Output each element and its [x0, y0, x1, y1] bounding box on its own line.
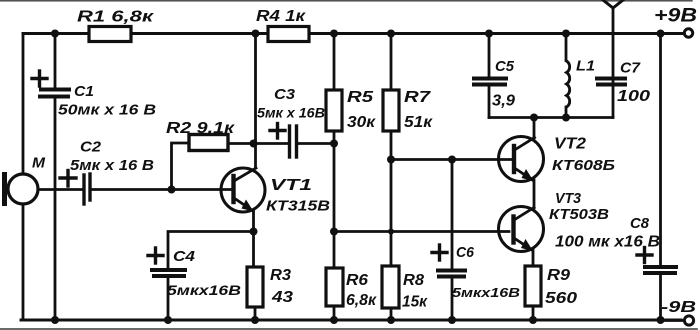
svg-text:100 мк x16 В: 100 мк x16 В	[555, 234, 660, 251]
wire VT3 emitter	[532, 250, 535, 266]
svg-text:C8: C8	[630, 215, 650, 232]
svg-text:5мк x 16В: 5мк x 16В	[257, 105, 325, 121]
terminal +9V	[684, 29, 692, 37]
transistor VT1	[221, 168, 265, 212]
svg-text:560: 560	[545, 290, 577, 307]
wire VT1 emitter	[252, 210, 255, 267]
resistor R3	[247, 267, 263, 307]
wire C5 branch	[488, 34, 491, 78]
wire VT2 base	[391, 158, 512, 161]
svg-text:R6: R6	[346, 272, 368, 289]
svg-text:C2: C2	[80, 139, 102, 156]
svg-text:R7: R7	[404, 89, 431, 106]
wire top rail	[23, 32, 684, 35]
wire R7 branch top	[390, 34, 393, 91]
wire R6 bottom	[333, 306, 336, 320]
C2 plus sign	[60, 176, 76, 179]
svg-text:R3: R3	[270, 267, 291, 284]
wire VT2 collector	[533, 118, 536, 139]
wire R8 bottom	[390, 308, 393, 320]
wire bottom rail	[21, 319, 681, 322]
wire left rail lower	[22, 204, 25, 320]
svg-text:L1: L1	[576, 58, 595, 75]
wire C6 bottom	[451, 277, 454, 320]
svg-text:5мк x 16 В: 5мк x 16 В	[70, 157, 154, 174]
svg-text:5мкx16В: 5мкx16В	[167, 282, 241, 298]
wire R5 branch top	[333, 34, 336, 91]
resistor R4	[268, 27, 309, 42]
svg-text:C3: C3	[274, 86, 296, 103]
wire C3 left	[256, 142, 289, 145]
svg-text:R1 6,8к: R1 6,8к	[77, 9, 154, 26]
wire VT2 emitter to VT3 collector	[533, 180, 536, 208]
microphone M	[8, 174, 38, 204]
wire right rail	[659, 34, 662, 267]
svg-text:C5: C5	[495, 58, 515, 75]
svg-text:VT1: VT1	[270, 177, 312, 194]
antenna	[612, 8, 615, 118]
capacitor C7	[597, 77, 625, 81]
svg-text:VT3: VT3	[555, 190, 582, 207]
wire R5 to R6	[333, 131, 336, 268]
resistor R1	[89, 27, 131, 42]
wire C3 right	[298, 142, 334, 145]
wire R7 to R8	[390, 131, 393, 266]
C4 plus sign	[148, 254, 163, 257]
capacitor C5	[474, 77, 506, 81]
svg-text:6,8к: 6,8к	[346, 292, 377, 309]
wire C6 branch	[451, 160, 454, 270]
wire R3 bottom	[254, 307, 257, 320]
svg-text:VT2: VT2	[554, 136, 586, 153]
svg-text:R8: R8	[403, 272, 424, 289]
svg-text:43: 43	[271, 289, 293, 306]
C6 plus sign	[432, 251, 447, 254]
C1 plus sign	[32, 77, 47, 80]
resistor R5	[326, 90, 342, 131]
svg-text:+9В: +9В	[654, 6, 697, 27]
svg-text:R9: R9	[547, 267, 570, 284]
resistor R7	[383, 90, 399, 131]
svg-text:C4: C4	[173, 248, 196, 265]
capacitor C3	[288, 126, 291, 157]
wire mic to C2	[38, 188, 82, 191]
resistor R2	[189, 135, 228, 151]
svg-text:30к: 30к	[347, 114, 376, 131]
svg-text:3,9: 3,9	[492, 93, 515, 110]
wire C8 bottom	[659, 274, 662, 320]
wire C2 to VT1 base	[91, 188, 231, 191]
capacitor C8	[645, 265, 676, 269]
wire emitter to C4	[168, 232, 254, 270]
svg-text:50мк x 16 В: 50мк x 16 В	[58, 102, 156, 119]
svg-text:C1: C1	[74, 83, 94, 100]
inductor L1	[567, 61, 570, 107]
svg-text:100: 100	[617, 88, 650, 105]
wire C1 branch	[54, 34, 57, 89]
wire tank bottom	[489, 116, 613, 119]
capacitor C1	[41, 88, 69, 92]
svg-text:C7: C7	[620, 60, 641, 77]
svg-text:M: M	[32, 155, 46, 172]
svg-text:15к: 15к	[402, 294, 428, 311]
transistor VT2	[499, 137, 544, 182]
wire VT1 collector	[254, 34, 257, 169]
capacitor C6	[438, 269, 465, 273]
svg-text:R5: R5	[347, 89, 374, 106]
svg-text:КТ608Б: КТ608Б	[552, 157, 615, 174]
resistor R6	[326, 268, 343, 306]
wire left rail	[22, 34, 25, 175]
svg-text:R2 9,1к: R2 9,1к	[166, 120, 235, 137]
wire R9 bottom	[532, 306, 535, 320]
svg-text:51к: 51к	[404, 114, 433, 131]
C8 plus sign	[637, 253, 652, 256]
capacitor C4	[152, 268, 185, 272]
svg-text:КТ315В: КТ315В	[266, 198, 330, 215]
C3 plus sign	[270, 129, 285, 132]
wire L1 branch	[565, 34, 568, 61]
wire VT3 base	[334, 230, 509, 233]
svg-text:-9В: -9В	[661, 299, 696, 316]
svg-text:C6: C6	[456, 244, 475, 261]
resistor R9	[525, 266, 541, 306]
resistor R8	[382, 266, 399, 308]
svg-text:КТ503В: КТ503В	[549, 206, 609, 223]
capacitor C2	[82, 175, 85, 204]
wire C4 to rail	[167, 277, 170, 320]
wire R2 left stub	[172, 143, 190, 189]
terminal -9V	[661, 319, 683, 322]
svg-text:5мкx16В: 5мкx16В	[452, 285, 520, 300]
svg-text:R4 1к: R4 1к	[256, 8, 306, 25]
wire R2 right	[228, 142, 253, 145]
transistor VT3	[499, 207, 544, 252]
